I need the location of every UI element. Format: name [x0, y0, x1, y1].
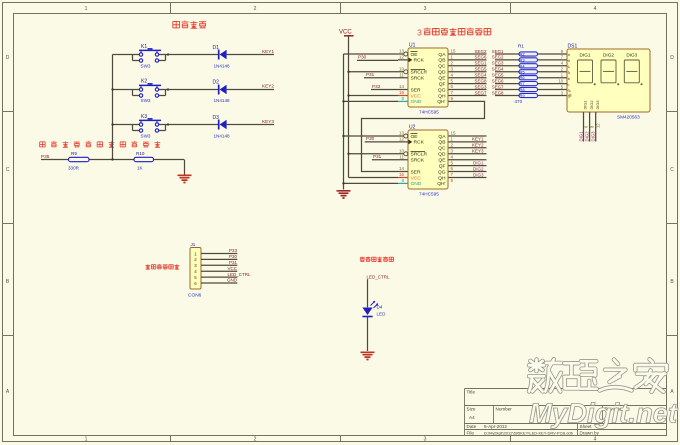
svg-text:2: 2 — [254, 6, 257, 12]
svg-text:DS1: DS1 — [568, 44, 578, 50]
svg-text:A: A — [670, 389, 674, 395]
svg-text:DIG1: DIG1 — [473, 160, 484, 165]
svg-text:3: 3 — [424, 437, 427, 443]
svg-text:SEG5: SEG5 — [474, 67, 487, 72]
svg-text:SEG2: SEG2 — [492, 55, 504, 60]
svg-text:DIG2: DIG2 — [603, 53, 614, 58]
svg-text:74HC595: 74HC595 — [419, 110, 439, 115]
svg-text:C: C — [670, 167, 674, 173]
svg-text:SEG4: SEG4 — [492, 67, 504, 72]
svg-text:10: 10 — [558, 78, 563, 83]
svg-text:Number: Number — [496, 407, 513, 412]
svg-text:B: B — [6, 279, 10, 285]
svg-text:LED_CTRL: LED_CTRL — [227, 272, 251, 277]
svg-text:SEG1: SEG1 — [492, 49, 504, 54]
svg-text:P31: P31 — [373, 154, 382, 159]
svg-text:SM420563: SM420563 — [617, 115, 640, 120]
svg-text:1: 1 — [85, 6, 88, 12]
svg-text:D2: D2 — [213, 80, 220, 86]
svg-text:R3: R3 — [520, 57, 526, 62]
svg-text:5-Apr-2012: 5-Apr-2012 — [484, 424, 507, 429]
svg-text:LED_CTRL: LED_CTRL — [367, 274, 391, 279]
svg-text:3: 3 — [417, 28, 422, 38]
svg-text:SEG1: SEG1 — [474, 61, 487, 66]
svg-text:1K: 1K — [137, 166, 144, 171]
svg-text:5: 5 — [561, 84, 564, 89]
svg-text:Date: Date — [467, 424, 477, 429]
svg-text:C: C — [6, 167, 10, 173]
svg-text:SEG8: SEG8 — [474, 78, 487, 83]
svg-text:SEG2: SEG2 — [474, 49, 487, 54]
svg-text:2: 2 — [254, 437, 257, 443]
svg-text:7: 7 — [561, 55, 564, 60]
svg-text:SEG3: SEG3 — [492, 61, 504, 66]
svg-text:1N4148: 1N4148 — [214, 98, 231, 103]
svg-text:DIG3: DIG3 — [626, 53, 637, 58]
svg-text:CON6: CON6 — [188, 293, 202, 299]
svg-text:6: 6 — [584, 125, 589, 128]
svg-text:VCC: VCC — [227, 266, 237, 271]
svg-text:D1: D1 — [213, 45, 220, 51]
svg-text:DIG3: DIG3 — [595, 100, 600, 109]
svg-text:SEG5: SEG5 — [492, 73, 504, 78]
svg-text:Title: Title — [467, 390, 476, 395]
svg-text:DIG3: DIG3 — [591, 131, 596, 142]
svg-text:SEG7: SEG7 — [474, 90, 487, 95]
svg-text:KEY2: KEY2 — [262, 83, 274, 88]
svg-text:SEG4: SEG4 — [474, 73, 487, 78]
svg-text:SEG6: SEG6 — [492, 78, 504, 83]
svg-text:B: B — [670, 279, 674, 285]
svg-text:K3: K3 — [141, 114, 147, 120]
svg-text:4: 4 — [594, 437, 597, 443]
svg-text:R9: R9 — [520, 93, 526, 98]
svg-text:DIG2: DIG2 — [589, 100, 594, 109]
svg-text:K2: K2 — [141, 79, 147, 85]
svg-text:KEY3: KEY3 — [262, 119, 274, 124]
svg-text:R10: R10 — [136, 151, 145, 156]
svg-text:D4: D4 — [377, 305, 383, 310]
svg-text:1N4148: 1N4148 — [214, 64, 231, 69]
svg-text:R4: R4 — [520, 63, 526, 68]
svg-text:A4: A4 — [469, 415, 475, 420]
svg-text:DIG1: DIG1 — [579, 131, 584, 142]
svg-text:DIG2: DIG2 — [473, 166, 484, 171]
svg-text:P35: P35 — [41, 154, 50, 159]
svg-text:D:\MyDigit\2012\595KEY\LED-KEY: D:\MyDigit\2012\595KEY\LED-KEY-DRV-PCB.d… — [484, 430, 574, 435]
svg-text:P30: P30 — [358, 55, 367, 60]
svg-text:R1: R1 — [518, 44, 524, 49]
svg-text:SW3: SW3 — [141, 64, 151, 69]
svg-text:R6: R6 — [520, 75, 526, 80]
svg-text:9: 9 — [561, 49, 564, 54]
svg-text:74HC595: 74HC595 — [419, 192, 439, 197]
svg-text:470: 470 — [515, 99, 523, 104]
svg-text:File: File — [467, 430, 475, 435]
svg-text:KEY1: KEY1 — [262, 49, 274, 54]
svg-text:8: 8 — [590, 125, 595, 128]
svg-text:A: A — [6, 389, 10, 395]
svg-text:330R: 330R — [68, 166, 80, 171]
svg-text:DIG1: DIG1 — [580, 53, 591, 58]
svg-text:Drawn by: Drawn by — [580, 430, 600, 435]
svg-text:SEG3: SEG3 — [474, 84, 487, 89]
svg-text:SEG7: SEG7 — [492, 84, 504, 89]
svg-text:DIG2: DIG2 — [585, 131, 590, 142]
svg-text:U1: U1 — [409, 43, 416, 49]
svg-text:LED: LED — [377, 312, 387, 317]
svg-text:P31: P31 — [229, 260, 238, 265]
svg-text:D: D — [670, 55, 674, 61]
svg-text:P33: P33 — [372, 84, 381, 89]
svg-text:R9: R9 — [71, 151, 77, 156]
svg-text:GND: GND — [227, 278, 238, 283]
svg-text:4: 4 — [561, 61, 564, 66]
svg-text:DIG3: DIG3 — [473, 172, 484, 177]
svg-text:2: 2 — [561, 67, 564, 72]
svg-text:P31: P31 — [366, 72, 375, 77]
svg-text:R7: R7 — [520, 81, 526, 86]
svg-text:P30: P30 — [229, 254, 238, 259]
svg-text:R5: R5 — [520, 69, 526, 74]
svg-text:SW3: SW3 — [141, 98, 151, 103]
svg-text:1N4148: 1N4148 — [214, 134, 231, 139]
svg-text:R2: R2 — [520, 52, 526, 57]
svg-text:KEY3: KEY3 — [472, 149, 484, 154]
svg-text:P33: P33 — [229, 248, 238, 253]
svg-text:DIG1: DIG1 — [583, 100, 588, 109]
svg-text:KEY2: KEY2 — [472, 143, 484, 148]
svg-text:P30: P30 — [366, 136, 375, 141]
svg-text:3: 3 — [424, 6, 427, 12]
svg-text:SW3: SW3 — [141, 134, 151, 139]
svg-text:12: 12 — [596, 123, 601, 128]
svg-text:J1: J1 — [191, 242, 196, 247]
svg-text:K1: K1 — [141, 44, 147, 50]
svg-text:D3: D3 — [213, 115, 220, 121]
svg-text:SEG6: SEG6 — [474, 55, 487, 60]
svg-text:1: 1 — [561, 73, 564, 78]
svg-text:Size: Size — [467, 407, 476, 412]
svg-text:SEG8: SEG8 — [492, 90, 504, 95]
svg-text:1: 1 — [85, 437, 88, 443]
svg-text:KEY1: KEY1 — [472, 137, 484, 142]
svg-text:R8: R8 — [520, 87, 526, 92]
svg-text:D: D — [6, 55, 10, 61]
svg-text:4: 4 — [594, 6, 597, 12]
svg-text:U2: U2 — [409, 125, 416, 131]
svg-text:VCC: VCC — [339, 30, 352, 36]
svg-text:MyDigit.net: MyDigit.net — [529, 398, 679, 429]
svg-text:3: 3 — [561, 90, 564, 95]
